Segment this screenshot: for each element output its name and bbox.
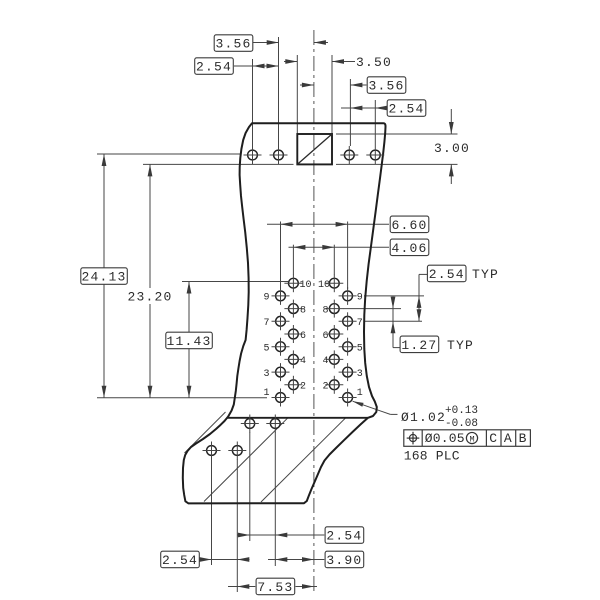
svg-text:3.00: 3.00 <box>434 141 470 156</box>
svg-text:6: 6 <box>300 331 306 342</box>
svg-text:3.90: 3.90 <box>326 553 362 568</box>
svg-text:7.53: 7.53 <box>257 580 293 595</box>
svg-text:1: 1 <box>263 388 269 399</box>
svg-text:2.54: 2.54 <box>388 102 424 117</box>
svg-text:1: 1 <box>357 388 363 399</box>
svg-text:4: 4 <box>300 356 306 367</box>
svg-text:Ø0.05: Ø0.05 <box>425 431 465 446</box>
svg-text:10: 10 <box>300 280 312 291</box>
svg-text:4: 4 <box>322 356 328 367</box>
svg-text:6.60: 6.60 <box>391 218 427 233</box>
svg-text:2.54: 2.54 <box>326 529 362 544</box>
svg-text:4.06: 4.06 <box>391 241 427 256</box>
svg-text:5: 5 <box>357 344 363 355</box>
svg-text:C: C <box>489 431 498 446</box>
svg-text:9: 9 <box>357 293 363 304</box>
svg-text:3.50: 3.50 <box>356 55 392 70</box>
svg-text:24.13: 24.13 <box>81 270 126 285</box>
svg-text:B: B <box>519 431 528 446</box>
svg-text:7: 7 <box>357 318 363 329</box>
svg-text:8: 8 <box>300 305 306 316</box>
svg-text:3.56: 3.56 <box>368 79 404 94</box>
svg-text:11.43: 11.43 <box>166 334 211 349</box>
svg-text:168 PLC: 168 PLC <box>404 449 460 464</box>
svg-text:2: 2 <box>322 382 328 393</box>
svg-text:1.27: 1.27 <box>401 338 437 353</box>
svg-text:3: 3 <box>357 369 363 380</box>
svg-text:10: 10 <box>318 280 330 291</box>
svg-text:3.56: 3.56 <box>215 37 251 52</box>
svg-text:6: 6 <box>322 331 328 342</box>
svg-text:TYP: TYP <box>447 338 474 353</box>
svg-text:9: 9 <box>263 293 269 304</box>
svg-text:M: M <box>469 434 474 444</box>
svg-text:5: 5 <box>263 344 269 355</box>
svg-text:23.20: 23.20 <box>127 290 172 305</box>
svg-text:2.54: 2.54 <box>162 553 198 568</box>
svg-text:+0.13: +0.13 <box>445 405 478 417</box>
svg-text:8: 8 <box>322 305 328 316</box>
svg-text:2.54: 2.54 <box>429 267 465 282</box>
svg-text:Ø1.02: Ø1.02 <box>401 410 446 425</box>
svg-text:2.54: 2.54 <box>196 60 232 75</box>
svg-text:-0.08: -0.08 <box>445 418 478 430</box>
svg-text:7: 7 <box>263 318 269 329</box>
svg-text:2: 2 <box>300 382 306 393</box>
svg-text:TYP: TYP <box>472 267 499 282</box>
svg-text:3: 3 <box>263 369 269 380</box>
svg-text:A: A <box>504 431 513 446</box>
